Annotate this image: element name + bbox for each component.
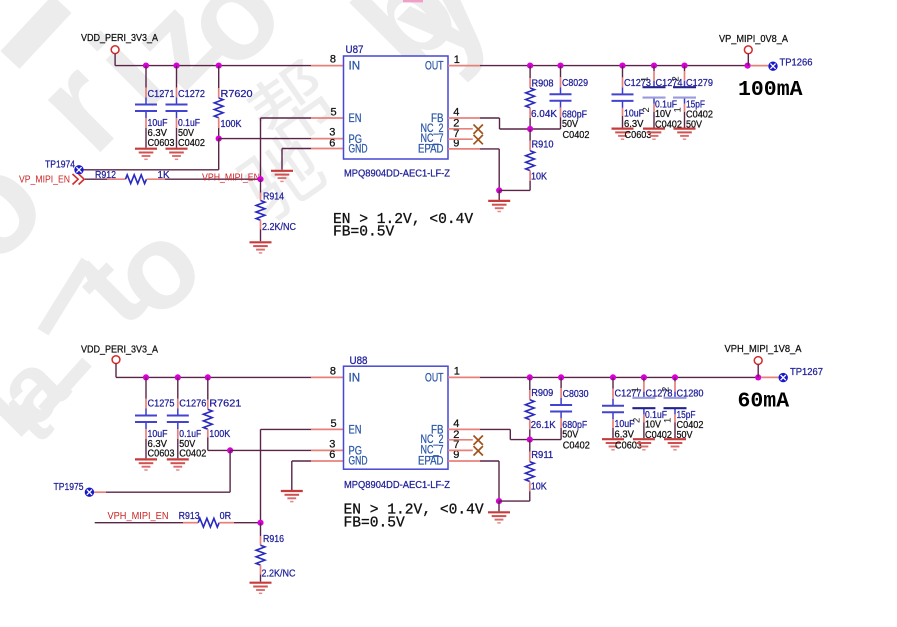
svg-text:R910: R910 [532,140,554,151]
ground [674,129,696,140]
junction FB node [527,126,533,132]
stub [560,107,562,117]
stub [260,193,262,201]
wire [234,522,261,524]
capacitor [664,392,687,415]
svg-text:6: 6 [329,449,335,461]
ground [271,171,293,182]
resistor R909 [525,400,534,420]
svg-text:EPAD: EPAD [418,144,444,156]
stub to TP1266 [751,65,769,67]
resistor R914 [256,201,265,221]
svg-text:C0402: C0402 [563,441,590,452]
wire [145,377,147,398]
ground [612,129,634,140]
wire GND [292,460,311,462]
stub [684,71,686,81]
svg-text:2: 2 [641,107,652,112]
wire EN vertical [260,118,262,179]
stub [529,141,531,151]
node C1274 top [651,63,657,69]
resistor R908 [526,88,535,108]
junction PG node [227,447,233,453]
svg-text:EN: EN [349,113,362,125]
pin 6 stub [311,148,344,150]
node C8030 top [558,374,564,380]
svg-text:TP1267: TP1267 [790,367,823,378]
ground [167,459,189,470]
capacitor [673,81,696,104]
pin 3 stub [311,449,344,451]
resistor R7620 [214,98,223,118]
wire [498,190,500,200]
svg-text:1K: 1K [158,170,170,181]
svg-text:FB=0.5V: FB=0.5V [344,515,406,531]
svg-text:10V: 10V [645,420,661,431]
stub [207,400,209,410]
capacitor [550,87,572,108]
wire [529,129,531,141]
pin 5 stub [311,117,344,119]
wire to TP1975 [229,450,231,492]
node C1278 top [641,374,647,380]
wire [218,128,220,139]
stub [176,88,178,98]
wire FB row [500,128,561,130]
wire EN vertical [260,429,262,522]
ground [633,439,655,450]
svg-text:R7621: R7621 [209,399,241,410]
wire [529,118,531,129]
stub [529,420,531,430]
svg-text:MPQ8904DD-AEC1-LF-Z: MPQ8904DD-AEC1-LF-Z [344,169,450,180]
wire GND [282,148,311,150]
ground [166,149,188,160]
wire [145,439,147,458]
svg-text:OUT: OUT [425,61,444,73]
stub [653,71,655,81]
svg-text:10V: 10V [655,109,671,120]
wire [145,128,147,148]
stub [260,220,262,229]
ground [250,583,272,594]
wire [684,112,686,128]
stub [529,390,531,400]
svg-text:R909: R909 [531,388,553,399]
stub [219,522,234,524]
svg-text:1: 1 [673,107,684,112]
wire FB [480,117,500,119]
stub [177,429,179,439]
svg-text:60mA: 60mA [738,390,790,414]
svg-text:2: 2 [671,76,682,81]
junction EPAD node [496,498,502,504]
capacitor [632,392,655,415]
wire FB down [499,118,501,129]
svg-text:EPAD: EPAD [418,456,444,468]
resistor R911 [525,462,534,482]
svg-text:VDD_PERI_3V3_A: VDD_PERI_3V3_A [81,344,158,356]
wire IN rail [116,376,311,378]
wire EN [261,117,312,119]
stub [207,429,209,437]
wire [498,501,500,511]
stub [529,108,531,118]
wire [560,377,562,388]
pin 4 stub FB [448,428,480,430]
stub [612,389,614,399]
svg-text:1: 1 [454,54,460,66]
svg-text:R916: R916 [263,534,284,545]
capacitor [135,98,157,119]
pin 7 stub NC_7 [448,449,473,451]
pin 6 stub [311,460,344,462]
svg-text:TP1974: TP1974 [45,159,75,170]
node R7620 top [216,63,222,69]
svg-text:6: 6 [329,137,335,149]
capacitor [167,409,189,430]
junction output node [755,374,761,380]
node C1271 top [143,63,149,69]
node C1275 top [143,374,149,380]
svg-text:C0402: C0402 [178,138,205,149]
svg-text:1: 1 [454,366,460,378]
svg-text:VPH_MIPI_EN: VPH_MIPI_EN [108,510,169,522]
wire [653,66,655,71]
svg-text:EN: EN [349,424,362,436]
wire [207,377,209,399]
wire [674,377,676,381]
svg-text:VDD_PERI_3V3_A: VDD_PERI_3V3_A [81,32,158,44]
stub [529,171,531,181]
wire [674,423,676,439]
wire [95,522,183,524]
wire [176,66,178,88]
stub [612,419,614,428]
wire [177,377,179,398]
junction EN node [257,520,263,526]
wire [260,575,262,582]
wire [176,128,178,148]
wire [114,54,116,66]
svg-text:C0603: C0603 [148,138,175,149]
wire PG [230,449,311,451]
wire [208,449,230,451]
wire [529,492,531,502]
stub [529,452,531,462]
EPAD overline [429,455,439,457]
power symbol VPH_MIPI_1V8_A [754,357,762,365]
node R7621 top [205,374,211,380]
svg-text:IN: IN [349,61,361,73]
stub [653,104,655,112]
no-connect NC_2 [474,125,483,134]
stub [183,522,198,524]
stub [218,88,220,98]
capacitor [643,81,666,104]
wire [684,66,686,71]
svg-text:U88: U88 [350,355,368,367]
svg-text:2.2K/NC: 2.2K/NC [262,222,296,233]
wire [643,377,645,381]
pin 8 stub [311,65,344,67]
stub [145,399,147,409]
pin 4 stub FB [448,117,480,119]
stub [560,418,562,428]
wire [499,500,530,502]
svg-text:MPQ8904DD-AEC1-LF-Z: MPQ8904DD-AEC1-LF-Z [344,480,450,491]
wire EPAD [480,460,499,462]
svg-text:VPH_MIPI_1V8_A: VPH_MIPI_1V8_A [725,343,802,355]
svg-text:OUT: OUT [425,372,444,384]
stub [674,382,676,392]
op-amp U87 regulator body [344,56,449,159]
svg-text:1: 1 [663,418,674,423]
stub [176,118,178,128]
wire [622,116,624,128]
pin 1 stub OUT [448,65,480,67]
capacitor [550,398,572,419]
ground [664,439,686,450]
svg-text:1: 1 [630,387,641,392]
wire IN rail [115,65,311,67]
wire [499,189,530,191]
svg-text:C8029: C8029 [562,78,588,89]
node C1277 top [610,374,616,380]
wire [529,66,531,78]
wire [612,377,614,388]
junction EN node [257,176,263,182]
wire PG [219,138,311,140]
svg-text:C8030: C8030 [563,389,589,400]
wire TP1974 [83,169,218,171]
test point TP1266 [768,61,777,70]
ground [281,491,303,502]
wire OUT rail [480,376,758,378]
stub [145,118,147,128]
stub [529,482,531,492]
wire [560,117,562,129]
stub [147,178,166,180]
ground [643,129,665,140]
test point TP1974 [74,165,83,174]
pin 8 stub [311,376,344,378]
svg-text:R912: R912 [95,170,116,181]
svg-text:50V: 50V [562,430,578,441]
wire TP1975 [106,491,230,493]
resistor R7621 [203,409,212,429]
wire [653,112,655,128]
wire [622,66,624,78]
wire [207,438,209,451]
ground [488,201,510,212]
svg-text:R914: R914 [263,192,284,203]
wire [291,461,293,490]
svg-text:5: 5 [330,107,336,119]
wire [145,66,147,88]
svg-text:6.3V: 6.3V [624,119,644,130]
svg-text:2: 2 [661,387,672,392]
svg-text:50V: 50V [562,119,578,130]
wire to TP1974 [218,139,220,170]
svg-text:8: 8 [330,54,336,66]
wire FB [480,428,510,430]
wire [529,440,531,452]
wire [529,430,531,440]
svg-text:C1272: C1272 [178,89,205,100]
test point TP1975 [85,488,94,497]
capacitor [166,98,188,119]
svg-text:C1276: C1276 [179,399,206,410]
wire [612,428,614,438]
stub [560,77,562,87]
pin 3 stub [311,138,344,140]
svg-text:6.3V: 6.3V [615,430,635,441]
svg-text:C1271: C1271 [148,89,175,100]
svg-text:U87: U87 [346,44,364,56]
wire [529,377,531,390]
svg-text:TP1975: TP1975 [54,482,84,493]
svg-text:GND: GND [349,456,368,468]
svg-text:C1275: C1275 [148,399,175,410]
pin 9 stub EPAD [448,148,480,150]
svg-text:1: 1 [640,77,651,82]
capacitor [135,409,157,430]
wire [85,178,107,180]
stub [94,491,106,493]
stub [145,429,147,439]
pin 9 stub EPAD [448,460,480,462]
wire [757,364,759,377]
resistor R916 [256,545,265,565]
svg-text:R7620: R7620 [221,89,253,100]
pin 2 stub NC_2 [448,439,473,441]
stub [622,77,624,87]
wire EN [261,428,312,430]
svg-text:10K: 10K [531,172,547,183]
ground [602,439,624,450]
svg-text:TP1266: TP1266 [780,57,813,68]
off-page connector VP_MIPI_EN [73,174,85,185]
svg-text:C0402: C0402 [563,130,590,141]
svg-text:50V: 50V [677,430,693,441]
wire EPAD [480,148,499,150]
stub to TP1267 [761,376,778,378]
ground [250,242,272,253]
svg-text:R911: R911 [531,450,553,461]
wire EPAD down [498,461,500,501]
svg-text:R913: R913 [179,511,200,522]
svg-text:5: 5 [330,418,336,430]
svg-text:GND: GND [349,144,368,156]
no-connect NC_7 [474,135,483,144]
pin 7 stub NC_7 [448,138,473,140]
stub [560,388,562,398]
pin 1 stub OUT [448,376,480,378]
node C1280 top [672,374,678,380]
wire [643,423,645,439]
no-connect NC_2 [474,436,483,445]
stub [145,88,147,98]
stub [684,104,686,112]
node C8029 top [557,63,563,69]
svg-text:VP_MIPI_0V8_A: VP_MIPI_0V8_A [719,33,788,45]
svg-text:0R: 0R [220,511,232,522]
junction EPAD node [496,187,502,193]
stub [260,536,262,545]
wire [218,66,220,88]
node C1272 top [173,63,179,69]
wire [529,181,531,190]
node R908 top [527,63,533,69]
svg-text:IN: IN [349,372,361,384]
wire [560,66,562,78]
svg-text:50V: 50V [686,120,702,131]
svg-text:FB=0.5V: FB=0.5V [333,225,395,241]
svg-text:10K: 10K [531,482,547,493]
stub [643,382,645,392]
capacitor [602,399,624,420]
stub [218,118,220,128]
wire [115,364,117,378]
node C1279 top [681,63,687,69]
wire [177,439,179,458]
power symbol VDD_PERI_3V3_A [111,46,119,54]
stub [177,399,179,409]
svg-text:6.04K: 6.04K [531,109,557,120]
no-connect NC_7 [474,446,483,455]
test point TP1267 [779,373,788,382]
stub [643,414,645,422]
junction PG node [216,136,222,142]
stub [674,414,676,422]
power symbol VP_MIPI_0V8_A [744,46,752,54]
wire [747,54,749,66]
wire VPH_MIPI_EN [165,178,261,180]
junction FB node [527,437,533,443]
svg-text:2: 2 [632,418,643,423]
wire OUT rail [480,65,748,67]
svg-text:26.1K: 26.1K [531,420,556,431]
ground [135,149,157,160]
wire [260,523,262,536]
stub [107,178,126,180]
resistor R912 [126,175,147,184]
svg-text:C0402: C0402 [179,448,206,459]
wire [260,230,262,242]
wire EPAD down [498,149,500,191]
svg-text:100mA: 100mA [738,78,803,102]
svg-text:VP_MIPI_EN: VP_MIPI_EN [19,173,70,185]
svg-text:R908: R908 [532,79,554,90]
stub [622,108,624,116]
capacitor [612,87,634,108]
wire [560,428,562,440]
svg-text:C0603: C0603 [148,448,175,459]
ground [488,512,510,523]
resistor R913 [198,518,219,527]
node C1276 top [175,374,181,380]
op-amp U88 regulator body [344,366,449,469]
node C1273 top [619,63,625,69]
svg-text:100K: 100K [221,119,242,130]
svg-text:2.2K/NC: 2.2K/NC [262,569,296,580]
resistor R910 [526,151,535,171]
pin 5 stub [311,428,344,430]
node R909 top [527,374,533,380]
stub [529,78,531,88]
EPAD overline [429,144,439,146]
